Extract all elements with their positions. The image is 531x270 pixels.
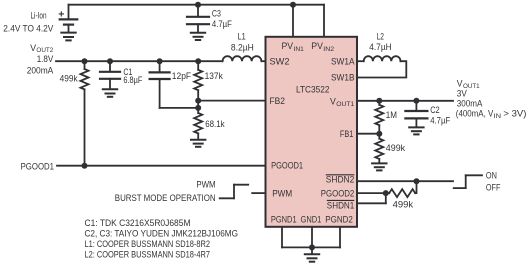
- node VOUT2/499k: [82, 58, 88, 64]
- node VOUT2/C1: [107, 58, 113, 64]
- svg-text:C1: TDK C3216X5R0J685M: C1: TDK C3216X5R0J685M: [85, 217, 191, 228]
- svg-text:OFF: OFF: [486, 183, 501, 194]
- capacitor C1: [100, 61, 120, 89]
- svg-text:ON: ON: [486, 171, 497, 182]
- overline SHDN2: [326, 174, 355, 176]
- svg-text:1M: 1M: [386, 110, 397, 121]
- overline SHDN1: [327, 199, 355, 201]
- svg-text:PV: PV: [282, 41, 294, 52]
- svg-text:499k: 499k: [386, 143, 405, 154]
- svg-text:PGOOD1: PGOOD1: [271, 161, 303, 172]
- node FB2: [195, 98, 201, 104]
- svg-text:FB1: FB1: [340, 129, 354, 140]
- wire VOUT1 rail: [357, 100, 453, 102]
- ground (C1): [103, 89, 117, 97]
- svg-text:PGND2: PGND2: [325, 214, 353, 225]
- svg-text:499k: 499k: [60, 74, 78, 85]
- node PGOOD1/499k: [82, 163, 88, 169]
- svg-text:BURST MODE OPERATION: BURST MODE OPERATION: [115, 193, 216, 204]
- ground (battery): [61, 33, 75, 41]
- svg-text:499k: 499k: [393, 199, 414, 210]
- svg-text:4.7µF: 4.7µF: [430, 115, 450, 126]
- node PGOOD2/SHDN1: [383, 190, 389, 196]
- wire SHDN2: [357, 180, 453, 182]
- svg-text:6.8µF: 6.8µF: [123, 75, 142, 86]
- wire PGND stubs: [281, 227, 283, 247]
- wire SHDN1 to PGOOD2 node: [385, 193, 387, 203]
- wire L2 to SW1B: [357, 61, 406, 77]
- resistor R 1M: [375, 101, 383, 134]
- wire resistor to SHDN2 node: [415, 181, 416, 193]
- resistor R 499k right: [375, 134, 383, 163]
- node VOUT1/C2: [413, 98, 419, 104]
- svg-text:200mA: 200mA: [27, 65, 54, 76]
- svg-text:PGOOD2: PGOOD2: [321, 189, 355, 200]
- node FB1/499k: [376, 131, 382, 137]
- inductor L2: [364, 56, 401, 61]
- wire PGOOD1: [57, 165, 266, 167]
- wire battery drop: [68, 5, 70, 19]
- ground (C3): [191, 33, 205, 40]
- ground (C2): [409, 127, 423, 134]
- svg-text:(400mA, V: (400mA, V: [456, 109, 494, 120]
- wire SW1A: [357, 60, 364, 62]
- svg-text:L1: COOPER BUSSMANN SD18-8R2: L1: COOPER BUSSMANN SD18-8R2: [85, 238, 211, 249]
- wire top rail: [69, 4, 325, 6]
- node 12pF/68.1k: [195, 105, 201, 111]
- svg-text:4.7µH: 4.7µH: [369, 42, 392, 53]
- svg-text:L2: L2: [377, 32, 384, 43]
- svg-text:L2: COOPER BUSSMANN SD18-4R7: L2: COOPER BUSSMANN SD18-4R7: [85, 248, 211, 259]
- svg-text:SW1B: SW1B: [331, 73, 355, 84]
- switch PWM/BURST: [220, 185, 266, 199]
- svg-text:PGND1: PGND1: [271, 214, 297, 225]
- node PVIN1 top: [290, 2, 296, 8]
- wire FB2: [198, 100, 265, 102]
- wire SHDN1: [357, 202, 386, 204]
- node VOUT1/1M: [376, 98, 382, 104]
- capacitor 12pF: [150, 61, 199, 108]
- svg-text:137k: 137k: [205, 71, 223, 82]
- wire L1 to SW2: [261, 60, 265, 62]
- svg-text:IN: IN: [494, 113, 501, 120]
- svg-text:1.8V: 1.8V: [37, 54, 54, 65]
- wire 499k to PGOOD1 rail: [84, 89, 86, 165]
- svg-text:LTC3522: LTC3522: [296, 85, 330, 96]
- svg-text:SHDN2: SHDN2: [326, 175, 355, 186]
- svg-text:8.2µH: 8.2µH: [231, 43, 254, 54]
- svg-text:L1: L1: [238, 32, 246, 43]
- svg-text:PGOOD1: PGOOD1: [21, 162, 54, 173]
- svg-text:SW1A: SW1A: [331, 57, 355, 68]
- svg-text:SW2: SW2: [270, 57, 290, 68]
- wire 12pF bottom to node: [160, 107, 199, 109]
- svg-text:68.1k: 68.1k: [205, 119, 225, 130]
- battery B1: [60, 19, 78, 32]
- IC pin labels: [270, 41, 356, 226]
- svg-text:4.7µF: 4.7µF: [212, 19, 232, 30]
- svg-text:GND1: GND1: [301, 214, 322, 225]
- svg-text:12pF: 12pF: [172, 71, 191, 82]
- svg-text:> 3V): > 3V): [503, 109, 526, 120]
- op-amp/IC U1 LTC3522 body: [266, 37, 358, 227]
- svg-text:PV: PV: [311, 41, 323, 52]
- svg-text:PWM: PWM: [272, 188, 292, 199]
- wire PWM pin stub: [252, 192, 265, 194]
- node SHDN2/499k: [414, 178, 420, 184]
- svg-text:IN2: IN2: [323, 46, 334, 53]
- inductor L1: [223, 56, 262, 61]
- node PGND: [309, 244, 315, 250]
- notes: [85, 217, 239, 259]
- node VOUT2/12pF: [157, 58, 163, 64]
- resistor R 499k pull-up (horizontal): [389, 189, 415, 197]
- capacitor C2: [405, 101, 427, 127]
- svg-text:PWM: PWM: [196, 179, 215, 190]
- resistor R 137k: [194, 61, 202, 113]
- resistor R 499k left: [81, 61, 89, 166]
- ground (PGND): [305, 247, 319, 261]
- wire PGOOD2: [357, 192, 389, 194]
- svg-text:C2, C3: TAIYO YUDEN JMK212BJ10: C2, C3: TAIYO YUDEN JMK212BJ106MG: [85, 228, 239, 239]
- svg-text:2.4V TO 4.2V: 2.4V TO 4.2V: [3, 23, 54, 34]
- wire FB1: [357, 133, 379, 135]
- ground (499k right): [372, 163, 386, 170]
- svg-text:SHDN1: SHDN1: [327, 200, 355, 211]
- svg-text:Li-Ion: Li-Ion: [31, 11, 47, 22]
- wire VOUT2 rail: [56, 60, 223, 62]
- svg-text:+: +: [58, 9, 64, 21]
- svg-text:C3: C3: [212, 8, 221, 19]
- switch ON/OFF: [454, 175, 482, 188]
- wire PVIN1 drop: [292, 5, 294, 37]
- svg-text:OUT1: OUT1: [336, 101, 355, 108]
- wire PVIN2 drop: [323, 5, 325, 37]
- svg-text:FB2: FB2: [270, 96, 286, 107]
- ground (68.1k): [191, 140, 205, 147]
- resistor R 68.1k: [194, 113, 202, 139]
- node C3 top: [195, 2, 201, 8]
- svg-text:IN1: IN1: [294, 46, 305, 53]
- capacitor C3: [187, 5, 209, 33]
- node VOUT2/137k: [195, 58, 201, 64]
